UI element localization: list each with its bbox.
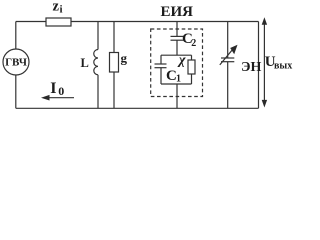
wire left [15,22,17,109]
wire loop right lower [191,74,193,84]
wire right [258,22,260,109]
svg-text:L: L [81,56,89,70]
wire EN branch top [227,22,229,59]
svg-text:z: z [53,0,60,15]
Uout arrowhead up [262,17,267,25]
svg-text:I: I [50,80,56,97]
resistor g [110,53,119,73]
resistor in crystal loop [188,60,195,74]
I0 arrowhead [41,95,50,101]
generator G1 circle [3,49,29,75]
Uout arrow line [263,22,265,102]
wire L branch bottom [97,75,99,109]
wire g branch top [113,22,115,53]
dashed box EIYa [151,29,203,97]
svg-text:1: 1 [176,74,181,85]
wire EN branch bottom [227,62,229,109]
resistor z_i [46,18,71,26]
svg-text:χ: χ [177,53,186,68]
svg-text:вых: вых [274,61,292,72]
variable capacitor EN [221,57,234,59]
wire L branch top [97,22,99,50]
wire bottom [16,107,259,109]
svg-text:ЭН: ЭН [241,60,261,75]
svg-text:0: 0 [58,84,64,98]
wire crystal branch top [176,22,178,37]
capacitor C1 [155,63,167,65]
current I0 arrow [48,97,74,99]
wire loop bottom bar [161,83,192,85]
capacitor C2 [171,35,184,37]
svg-text:ГВЧ: ГВЧ [5,57,27,69]
wire loop left upper [160,55,162,64]
wire top [16,21,259,23]
svg-text:2: 2 [191,38,196,49]
wire loop top bar [161,54,192,56]
svg-text:g: g [121,51,128,66]
wire crystal branch bottom [176,84,178,108]
inductor L [94,50,98,75]
svg-text:i: i [60,4,63,16]
wire loop left lower [160,68,162,84]
Uout arrowhead down [262,100,267,108]
wire C2 to loop [176,40,178,55]
svg-text:ЕИЯ: ЕИЯ [161,4,194,20]
wire g branch bottom [113,72,115,108]
wire loop right upper [191,55,193,60]
variable capacitor arrowhead [230,45,237,54]
